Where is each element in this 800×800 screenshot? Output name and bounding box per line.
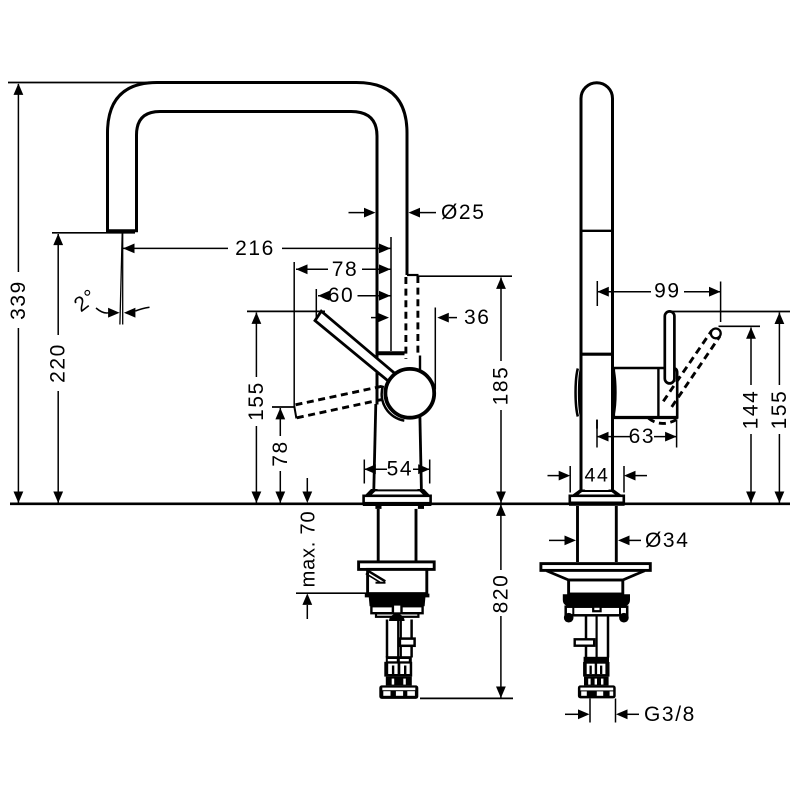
side trapezoid right [622,571,645,581]
dashed lever side edge 1 [663,331,711,402]
dim O25 left [349,212,365,214]
roller right [619,613,629,623]
side hose lines [585,615,588,657]
svg-text:220: 220 [47,343,70,383]
dim 220 line [57,234,59,503]
base bevel right [417,489,431,496]
side body bottom edge [581,490,613,492]
dim 339 arrows [14,83,24,95]
inlet nut [379,685,418,699]
base flange [364,496,431,503]
dim 54 extensions [363,460,365,484]
dim O25 right [409,208,421,218]
dim 60 arrows [318,291,330,301]
dim 144 line [750,328,752,503]
dim 44 extensions [569,466,571,493]
side valve window bars [590,666,592,675]
dim 78 left extension [272,406,295,408]
dim 339 line [17,84,19,503]
gasket tab left [375,506,381,509]
gasket tab right [418,506,424,509]
dim G38 left [565,713,578,715]
dim 144 extension [719,325,761,327]
tube seam upper [581,230,613,232]
dim 63 arrows [597,432,609,442]
clamp screw diagonal [368,571,385,582]
stack white band [371,606,422,613]
dim 216 line [123,247,391,249]
dim 185 arrows [496,277,506,289]
countertop deck line [10,502,790,505]
knob shadow arc [382,386,405,421]
dim max70 bottom extension [296,592,367,594]
side bracket bar [566,607,628,616]
dim G38 right [616,709,628,719]
dim O34 right [618,536,630,546]
mounting washer [359,562,435,570]
side nut slot [580,688,613,691]
check valve body [384,662,412,677]
grip bump left inner [579,371,581,415]
dim 820 bottom extension [420,697,513,699]
dim 155 left line [255,313,257,503]
side valve window left [587,664,595,674]
side trapezoid left [547,571,570,581]
dim 36 left arrow [371,317,377,319]
svg-text:Ø25: Ø25 [441,201,486,224]
water stream line A [122,234,124,325]
svg-text:820: 820 [489,574,512,614]
valve window bars [392,666,394,675]
dim 155 right arrows [775,313,785,325]
side nut squares [581,691,587,695]
handle lever front [315,311,400,385]
cartridge block [614,368,677,417]
dim 78 line [296,268,391,270]
spout outer outline [108,83,408,276]
swing arc dashed [649,418,677,423]
dim 99 arrows [597,287,609,297]
svg-text:155: 155 [768,390,791,430]
spout inner outline / body left edge [137,112,378,405]
side bevel left [570,490,585,497]
roller left [564,613,574,623]
hose dome [389,614,405,621]
valve window right [400,664,409,674]
body below knob right edge [420,417,422,490]
svg-text:339: 339 [7,280,30,320]
svg-text:44: 44 [585,464,610,486]
dim 220 extension [52,232,135,234]
dim 36 extension [434,308,436,390]
seal stack black [365,594,430,607]
side valve comb [584,677,609,686]
side mounting box [569,580,623,594]
base bevel left [364,489,378,496]
handle bar side [665,311,675,383]
side shank right [615,506,618,562]
grip bump right [613,369,615,415]
clamp screw diagonal 2 [366,574,380,583]
collar top bar [376,351,405,355]
body bottom edge [374,489,421,491]
svg-text:G3/8: G3/8 [644,703,696,726]
tube seam lower [581,353,613,356]
bracket dividers [572,607,574,615]
dim 54 line [364,468,387,470]
pull-out step [407,274,419,276]
side flange [570,496,624,503]
connector top band [386,656,412,662]
dim 339 extension top [8,82,160,84]
svg-text:144: 144 [740,390,763,430]
side flange bottom strip [569,502,625,506]
dim G38 extensions [589,699,591,723]
clamp screw tip [376,582,386,584]
stack lower band [376,613,418,616]
valve window left [388,664,397,674]
dim 44 left [548,475,560,477]
side seal bowl [563,594,630,606]
side bevel right [608,490,623,497]
angle arrows [108,308,120,318]
dim 78 arrows [296,264,308,274]
shank right edge [415,509,418,562]
comb ticks [392,679,395,685]
angle leader [96,308,109,313]
svg-text:216: 216 [235,237,275,260]
angle tail [135,307,149,311]
water stream line B [120,234,122,325]
dim 99 extension left [596,281,598,306]
dim 99 extension right [720,282,722,323]
side shank left [576,506,579,562]
side inlet nut [578,685,616,698]
side base plate [541,564,650,571]
dashed lever end cap [294,406,296,418]
dim 155 left arrows [252,312,262,324]
dim 155 left extension [247,310,325,312]
dim 820 arrows [496,504,506,516]
svg-text:60: 60 [328,284,355,307]
dim 44 right [624,471,636,481]
dim 144 arrows [746,327,756,339]
svg-text:78: 78 [269,440,292,467]
svg-text:36: 36 [464,306,491,329]
dashed lever side edge 2 [672,336,720,407]
dim 36 right arrow [437,313,449,323]
dim 820 line [500,505,502,698]
svg-text:max. 70: max. 70 [298,511,320,588]
swing center tick [596,420,598,429]
svg-text:78: 78 [332,258,359,281]
dim 78 left line [279,408,281,503]
stack center notch [393,604,402,614]
handle knob circle [385,369,434,418]
nut squares [383,691,390,696]
svg-text:185: 185 [490,366,513,406]
svg-text:99: 99 [654,280,681,303]
dim 185 extension [419,275,513,277]
dim 220 arrows [53,234,63,246]
dim 63 line [597,436,630,438]
dashed lever down position top edge [296,385,388,405]
connector top band slots [388,659,397,661]
grip bump left outer [576,369,578,417]
dim O34 left [549,539,565,541]
hose collar [400,639,415,646]
dim 78 left arrows [275,408,285,420]
dashed lever down position bottom edge [297,398,388,418]
mounting box [368,569,427,593]
dim 60 extension [315,289,317,319]
side connector top band [584,657,609,663]
svg-text:54: 54 [387,458,414,481]
svg-text:63: 63 [629,425,656,448]
side comb ticks [588,679,590,685]
dim 155 right extension [672,311,790,313]
valve comb [386,677,412,686]
side valve window right [597,664,605,674]
shank left edge [377,509,380,562]
body below knob left edge [374,404,376,490]
dim 99 line [597,291,720,293]
block bottom [612,416,678,419]
dim 185 line [500,278,502,503]
hose clip [575,639,595,645]
dim max70 top arrow [306,478,308,492]
lever tip circle [711,329,721,339]
dim 60 line [318,295,391,297]
pull-out spray dashed left edge [404,277,407,359]
pull-out spray dashed right edge [416,276,419,357]
svg-text:155: 155 [245,381,268,421]
spout outlet bottom [106,229,138,232]
dim 54 arrows [364,464,376,474]
dim 216 arrows [123,244,135,254]
axis extension line [390,237,392,351]
flange bottom strip [363,502,432,506]
dim 78 extension [293,262,295,407]
side check valve body [583,662,609,677]
bracket center tab [593,607,600,612]
svg-text:Ø34: Ø34 [645,529,690,552]
side tube [581,83,613,490]
dim 155 right line [778,313,780,503]
nut slot [382,688,415,691]
body right edge upper [419,356,421,370]
supply hose lines [386,620,389,658]
dim max70 bottom arrow [302,593,312,605]
dim 63 extensions [596,420,598,448]
block divider [657,369,659,418]
